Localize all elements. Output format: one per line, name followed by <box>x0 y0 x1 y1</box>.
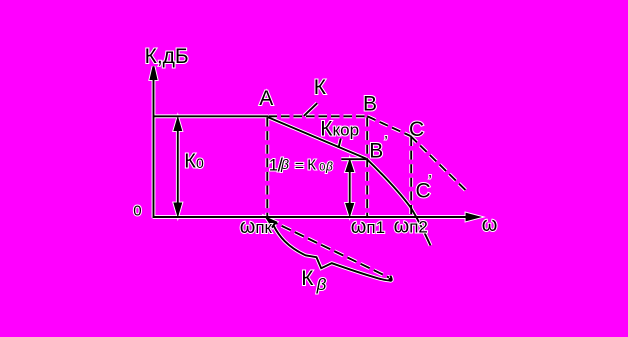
svg-text:ωпк: ωпк <box>240 216 273 238</box>
svg-text:’: ’ <box>428 173 432 190</box>
svg-text:А: А <box>259 87 273 110</box>
svg-text:ωп2: ωп2 <box>394 215 428 237</box>
svg-text:0: 0 <box>133 202 141 219</box>
svg-text:К,дБ: К,дБ <box>145 45 189 68</box>
svg-text:’: ’ <box>384 134 388 151</box>
svg-text:В: В <box>369 139 383 162</box>
svg-text:0: 0 <box>319 161 325 173</box>
svg-text:Ккор: Ккор <box>320 118 359 141</box>
svg-text:К: К <box>314 76 327 99</box>
svg-text:=: = <box>295 158 304 175</box>
svg-text:В: В <box>363 92 377 115</box>
svg-text:β: β <box>325 160 333 174</box>
svg-text:ωп1: ωп1 <box>351 216 385 238</box>
svg-text:ω: ω <box>482 214 498 236</box>
svg-text:С: С <box>409 118 424 141</box>
svg-text:/: / <box>278 156 284 177</box>
svg-text:β: β <box>316 275 327 294</box>
svg-text:К: К <box>307 157 316 174</box>
svg-text:К: К <box>301 267 314 290</box>
